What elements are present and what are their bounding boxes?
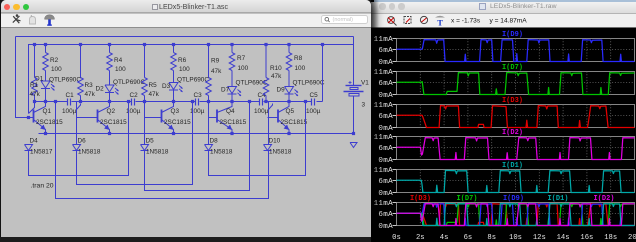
wire coupling 1 (D4 to stage2) (29, 102, 35, 114)
plot pane 6 (397, 203, 635, 226)
svg-text:Q3: Q3 (171, 108, 180, 115)
svg-text:1N5818: 1N5818 (210, 148, 233, 155)
wire C5 return to rail (322, 45, 324, 102)
svg-text:47k: 47k (30, 91, 41, 98)
plot pane 1 (397, 39, 635, 62)
svg-text:Q1: Q1 (43, 108, 52, 115)
wire base row (35, 101, 68, 103)
svg-text:R7: R7 (237, 55, 246, 62)
svg-text:2SC1815: 2SC1815 (220, 119, 247, 126)
svg-text:R8: R8 (294, 55, 303, 62)
svg-text:R5: R5 (149, 82, 158, 89)
svg-text:R6: R6 (178, 57, 187, 64)
diode D5 1N5818 (141, 145, 149, 151)
svg-text:C5: C5 (310, 92, 319, 99)
wire coupling 4 (D8 to stage5) (208, 102, 210, 145)
left window (schematic) (1, 0, 371, 237)
capacitor C2 100u (131, 99, 133, 106)
trace I(D7) overlay (397, 204, 635, 226)
wire coupling 5 (D10 to stage1) (269, 104, 273, 117)
capacitor C1 100u (67, 99, 69, 106)
trace I(D9) overlay (397, 204, 635, 226)
svg-text:100µ: 100µ (254, 108, 269, 115)
wire coupling 3 (D5 to stage4) (144, 102, 146, 145)
LED D2 QTLP690C (105, 85, 114, 92)
svg-text:C1: C1 (66, 92, 75, 99)
LED D1 QTLP690C (41, 81, 50, 88)
svg-text:QTLP690C: QTLP690C (177, 77, 209, 84)
wire top rail V+ (16, 36, 354, 38)
svg-text:R1: R1 (30, 82, 39, 89)
trace I(D1) overlay (397, 203, 635, 225)
svg-text:Q5: Q5 (286, 108, 295, 115)
svg-text:R2: R2 (50, 57, 59, 64)
transistor Q1 2SC1815 (33, 110, 35, 123)
right traffic lights (inactive) (379, 3, 385, 9)
svg-text:D9: D9 (277, 87, 286, 94)
svg-text:1N5818: 1N5818 (78, 148, 101, 155)
svg-text:D8: D8 (210, 137, 219, 144)
transistor Q3 2SC1815 (161, 110, 163, 123)
LED D9 QTLP690C (285, 87, 294, 94)
wire ground rail (39, 133, 354, 135)
resistor R3 47k (80, 45, 82, 78)
wire coupling 2 (D6 to stage3) (77, 104, 81, 117)
resistor R10 47k (265, 45, 267, 78)
wire supply rail 2 (29, 45, 354, 114)
transistor Q4 2SC1815 (216, 110, 218, 123)
svg-text:100: 100 (238, 65, 249, 72)
diode D8 1N5818 (205, 145, 213, 151)
LED D7 QTLP690C (228, 87, 237, 94)
svg-text:1N5818: 1N5818 (146, 148, 169, 155)
svg-text:47k: 47k (271, 73, 282, 80)
capacitor C5 100u (311, 99, 313, 106)
plot pane 2 (397, 72, 635, 95)
diode D10 1N5818 (264, 145, 272, 151)
svg-text:D6: D6 (78, 137, 87, 144)
diode D6 1N5818 (73, 145, 81, 151)
svg-text:100: 100 (51, 66, 62, 73)
svg-text:1N5817: 1N5817 (30, 148, 53, 155)
svg-text:2SC1815: 2SC1815 (164, 119, 191, 126)
svg-text:D7: D7 (221, 87, 230, 94)
svg-text:Q4: Q4 (226, 108, 235, 115)
svg-text:47k: 47k (149, 91, 160, 98)
svg-text:C3: C3 (194, 92, 203, 99)
svg-text:D3: D3 (162, 83, 171, 90)
svg-text:QTLP690C: QTLP690C (49, 77, 81, 84)
trace I(D3) overlay (397, 204, 635, 226)
transistor Q5 2SC1815 (277, 110, 279, 123)
svg-text:47k: 47k (211, 68, 222, 75)
plot pane 5 (397, 170, 635, 193)
svg-text:R4: R4 (114, 57, 123, 64)
svg-text:2SC1815: 2SC1815 (281, 119, 308, 126)
LED D3 QTLP690C (169, 83, 178, 90)
svg-text:QTLP690C: QTLP690C (113, 79, 145, 86)
svg-text:R3: R3 (85, 82, 94, 89)
svg-text:D4: D4 (30, 137, 39, 144)
resistor R9 47k (208, 45, 210, 78)
resistor R7 100 (231, 45, 233, 53)
svg-text:C2: C2 (130, 92, 139, 99)
diode D4 1N5817 (25, 145, 33, 151)
resistor R4 100 (109, 45, 111, 53)
svg-text:100: 100 (115, 66, 126, 73)
svg-text:Q2: Q2 (107, 108, 116, 115)
wire left drop from top rail (16, 37, 29, 118)
svg-text:100: 100 (179, 66, 190, 73)
svg-text:47k: 47k (85, 91, 96, 98)
svg-text:D5: D5 (146, 137, 155, 144)
resistor R1 47k (34, 45, 36, 78)
svg-text:QTLP690C: QTLP690C (293, 80, 325, 87)
svg-text:V1: V1 (361, 79, 369, 86)
svg-text:3: 3 (362, 101, 366, 108)
svg-text:R9: R9 (211, 58, 220, 65)
svg-text:100µ: 100µ (306, 108, 321, 115)
svg-text:100: 100 (295, 65, 306, 72)
left traffic lights (4, 4, 10, 10)
resistor R6 100 (173, 45, 175, 53)
svg-text:D2: D2 (96, 86, 105, 93)
capacitor C3 100u (195, 99, 197, 106)
plot pane 3 (397, 105, 635, 128)
svg-text:.tran 20: .tran 20 (31, 183, 54, 190)
svg-text:QTLP690C: QTLP690C (236, 80, 268, 87)
transistor Q2 2SC1815 (97, 110, 99, 123)
plot pane 4 (397, 137, 635, 160)
resistor R8 100 (288, 45, 290, 53)
ground (350, 143, 357, 148)
right title icon + text (479, 3, 486, 10)
left title icon + text (152, 4, 158, 11)
right window (waveform viewer) (371, 0, 636, 242)
battery V1 (353, 37, 355, 86)
svg-text:R10: R10 (270, 65, 282, 72)
svg-text:1N5818: 1N5818 (269, 148, 292, 155)
svg-text:2SC1815: 2SC1815 (100, 119, 127, 126)
resistor R5 47k (144, 45, 146, 78)
svg-text:100µ: 100µ (62, 108, 77, 115)
trace I(D2) overlay (397, 204, 635, 226)
resistor R2 100 (45, 45, 47, 53)
capacitor C4 100u (259, 99, 261, 106)
svg-text:2SC1815: 2SC1815 (36, 119, 63, 126)
svg-text:D10: D10 (269, 137, 281, 144)
junction Q1 base (27, 116, 30, 119)
